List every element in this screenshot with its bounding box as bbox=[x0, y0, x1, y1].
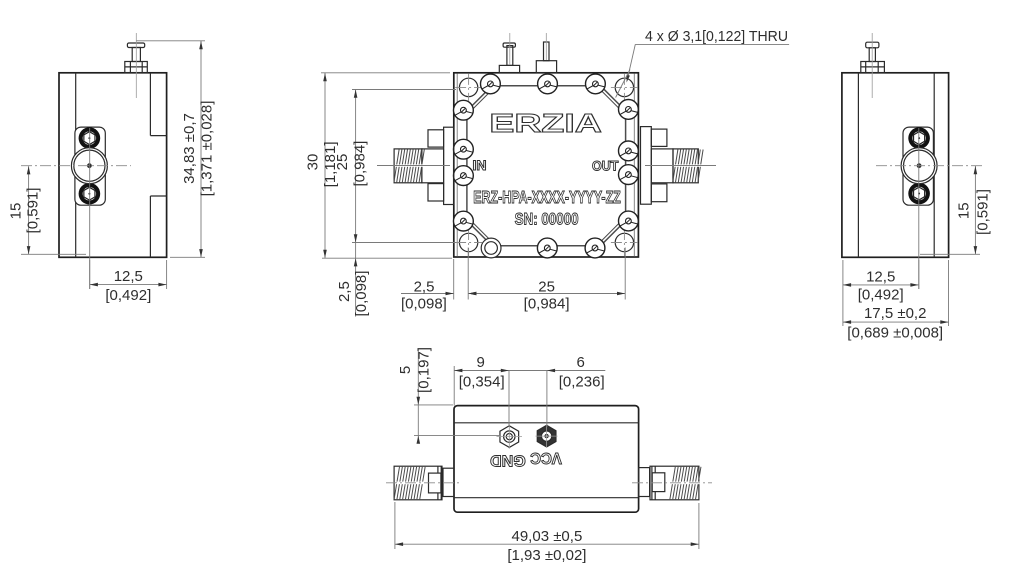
lid screw 5 bbox=[585, 238, 605, 258]
left view feedthrough pin bbox=[125, 33, 148, 98]
svg-text:[0,984]: [0,984] bbox=[352, 141, 369, 187]
svg-text:9: 9 bbox=[477, 354, 485, 371]
svg-text:49,03 ±0,5: 49,03 ±0,5 bbox=[512, 528, 583, 545]
svg-text:[0,492]: [0,492] bbox=[105, 287, 151, 304]
svg-text:ERZIA: ERZIA bbox=[489, 108, 602, 138]
lid screw 2 bbox=[538, 74, 558, 94]
top view SMA connector left bbox=[377, 127, 454, 204]
svg-text:VCC: VCC bbox=[530, 449, 562, 466]
left view SMA mounting screw bottom bbox=[79, 183, 101, 205]
svg-text:[0,984]: [0,984] bbox=[524, 296, 570, 313]
dimension 9 [0,354] bottom view bbox=[454, 354, 509, 427]
svg-text:4 x Ø 3,1[0,122] THRU: 4 x Ø 3,1[0,122] THRU bbox=[645, 28, 788, 45]
lid screw 10 bbox=[619, 100, 639, 120]
dimension 2,5 [0,098] horizontal top view bbox=[401, 259, 476, 312]
right view SMA mounting screw bottom bbox=[908, 183, 930, 205]
left side view body bbox=[59, 73, 167, 257]
svg-text:[1,371 ±0,028]: [1,371 ±0,028] bbox=[199, 101, 216, 197]
dimension 49,03 [1,93] bottom view bbox=[395, 502, 699, 564]
svg-text:30: 30 bbox=[305, 154, 322, 171]
top view lid plate bbox=[467, 86, 626, 246]
svg-text:[0,098]: [0,098] bbox=[353, 271, 370, 317]
dimension 34,83 left view bbox=[136, 41, 215, 257]
svg-text:[0,236]: [0,236] bbox=[559, 373, 605, 390]
top view SMA connector right bbox=[641, 127, 717, 205]
lid screw 12 bbox=[619, 165, 639, 185]
lid screw 1 bbox=[481, 74, 501, 94]
svg-text:25: 25 bbox=[334, 154, 351, 171]
svg-text:[0,591]: [0,591] bbox=[974, 189, 991, 235]
svg-text:SN: 00000: SN: 00000 bbox=[515, 210, 579, 229]
dimension 12,5 [0,492] left view bbox=[90, 260, 167, 304]
right view SMA coax bore bbox=[901, 148, 937, 184]
svg-text:GND: GND bbox=[490, 451, 526, 468]
lid screw 8 bbox=[454, 166, 474, 186]
svg-text:ERZ-HPA-XXXX-YYYY-ZZ: ERZ-HPA-XXXX-YYYY-ZZ bbox=[473, 187, 621, 207]
svg-text:2,5: 2,5 bbox=[414, 279, 435, 296]
right view SMA mounting screw top bbox=[908, 127, 930, 149]
bottom view body bbox=[454, 406, 639, 513]
bottom view SMA connector right bbox=[632, 466, 712, 500]
lid screw 11 bbox=[619, 141, 639, 161]
bottom view VCC pin hex bbox=[536, 425, 558, 447]
dimension 30 [1,181] top view bbox=[305, 73, 453, 258]
lid screw washer bottom-left bbox=[481, 238, 501, 258]
dimension 25 [0,984] vertical top view bbox=[334, 90, 456, 243]
lid screw 3 bbox=[586, 74, 606, 94]
svg-text:15: 15 bbox=[8, 203, 25, 220]
dimension 12,5 [0,492] right view bbox=[843, 260, 919, 326]
svg-text:5: 5 bbox=[397, 366, 414, 374]
right view SMA connector plate bbox=[903, 127, 933, 205]
top view VCC feedthrough pin bbox=[536, 33, 556, 73]
svg-text:12,5: 12,5 bbox=[866, 268, 895, 285]
lid screw 13 bbox=[619, 211, 639, 231]
svg-text:[0,197]: [0,197] bbox=[416, 347, 433, 393]
bottom view SMA connector left bbox=[386, 466, 460, 500]
mounting hole bottom-right bbox=[611, 229, 638, 256]
mounting hole top-left bbox=[455, 74, 482, 101]
left view SMA coax bore bbox=[71, 148, 107, 184]
svg-text:[0,591]: [0,591] bbox=[25, 188, 42, 234]
svg-text:[0,098]: [0,098] bbox=[401, 295, 447, 312]
mounting hole top-right bbox=[611, 74, 638, 101]
svg-text:[0,354]: [0,354] bbox=[459, 373, 505, 390]
lid screw 7 bbox=[454, 139, 474, 159]
right view feedthrough pin bbox=[861, 33, 885, 98]
left view SMA connector plate bbox=[75, 127, 105, 205]
svg-text:2,5: 2,5 bbox=[336, 281, 353, 302]
right side view body bbox=[842, 73, 949, 257]
svg-text:[0,689 ±0,008]: [0,689 ±0,008] bbox=[847, 325, 943, 342]
dimension 15 [0,591] right view bbox=[920, 166, 991, 254]
svg-text:IN: IN bbox=[473, 158, 487, 173]
dimension 15 [0,591] left view bbox=[8, 166, 87, 254]
left view centerlines bbox=[21, 128, 131, 289]
svg-text:[1,93 ±0,02]: [1,93 ±0,02] bbox=[507, 547, 586, 564]
dimension 2,5 [0,098] vertical top view bbox=[336, 243, 370, 317]
dimension 5 [0,197] bottom view bbox=[397, 347, 500, 444]
lid screw 6 bbox=[454, 100, 474, 120]
svg-text:6: 6 bbox=[577, 354, 585, 371]
svg-text:[0,492]: [0,492] bbox=[858, 287, 904, 304]
dimension 17,5 [0,689] right view bbox=[843, 260, 949, 342]
svg-text:25: 25 bbox=[538, 278, 555, 295]
top view outer body bbox=[454, 73, 639, 257]
svg-text:34,83 ±0,7: 34,83 ±0,7 bbox=[181, 113, 198, 184]
hole callout 4 x diameter 3,1 THRU bbox=[616, 28, 790, 98]
svg-text:12,5: 12,5 bbox=[114, 268, 143, 285]
lid screw 4 bbox=[537, 238, 557, 258]
dimension 6 [0,236] bottom view bbox=[509, 354, 605, 427]
left view SMA mounting screw top bbox=[79, 127, 101, 149]
svg-text:17,5 ±0,2: 17,5 ±0,2 bbox=[864, 305, 926, 322]
mounting hole bottom-left bbox=[455, 229, 482, 256]
svg-text:15: 15 bbox=[955, 202, 972, 219]
dimension 25 [0,984] horizontal top view bbox=[468, 248, 625, 313]
top view GND feedthrough pin bbox=[499, 33, 519, 73]
lid screw 9 bbox=[454, 211, 474, 231]
bottom view GND pin hex bbox=[497, 425, 523, 449]
svg-text:OUT: OUT bbox=[592, 159, 619, 174]
right view centerlines bbox=[876, 128, 985, 289]
